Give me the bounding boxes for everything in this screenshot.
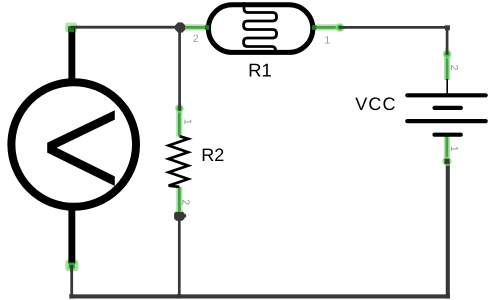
junction: bottom bus at R2 branch	[177, 294, 181, 299]
wire: battery pin 1 green wire (bottom)	[444, 135, 450, 162]
terminal: R1 pin 1 dark-green pad at stadium edge	[312, 25, 316, 30]
resistor R1: stadium body	[208, 5, 312, 53]
wire: bottom horizontal bus	[70, 294, 450, 298]
wire: R1 pin 1 green wire (stadium to net dot)	[312, 24, 339, 30]
svg-text:R1: R1	[248, 60, 272, 81]
terminal: source top pin green halo	[65, 23, 77, 33]
battery VCC: long plate 1	[407, 93, 485, 97]
wire: vertical from junction A down to R2 pin 1	[178, 27, 181, 108]
battery VCC: short plate 1	[435, 106, 461, 110]
terminal: R1 pin 2 dark-green pad at stadium edge	[205, 25, 209, 30]
junction: bottom-left corner	[69, 294, 73, 299]
battery VCC: short plate 2	[435, 133, 461, 137]
svg-text:R2: R2	[201, 145, 224, 165]
svg-text:1: 1	[324, 34, 330, 46]
wire: R2 pin 2 green wire	[176, 187, 182, 212]
svg-text:2: 2	[193, 33, 199, 45]
terminal: green dot at battery pin 2	[443, 48, 452, 58]
wire: top-left horizontal from source top terminal to junction A	[72, 26, 181, 29]
terminal: green dot end of R1 pin 1 wire	[336, 23, 346, 32]
voltage source U1: top lead	[68, 27, 75, 81]
voltage source U1: bottom lead	[68, 208, 75, 264]
junction: top-right corner square	[445, 25, 450, 30]
wire: battery pin 2 green wire (top)	[444, 55, 450, 80]
node B: junction dot below R2 pin 2	[174, 211, 184, 221]
wire: R1 pin 2 green wire (junction A to stadium)	[186, 24, 209, 30]
svg-text:VCC: VCC	[355, 94, 396, 114]
svg-text:2: 2	[180, 199, 191, 205]
junction: bottom-right corner	[446, 294, 450, 299]
wire: vertical from top-right corner down to battery pin 2	[446, 26, 449, 53]
terminal: battery pin 1 bottom pad	[442, 157, 451, 166]
resistor R2: zigzag	[169, 136, 189, 187]
terminal: source bottom pin green core	[69, 263, 75, 272]
wire: left vertical from source bottom terminal down to bottom bus	[70, 264, 73, 297]
resistor R1: internal meander element	[244, 2, 277, 54]
terminal: source bottom pin green halo	[65, 260, 78, 271]
terminal: green dot at R2 pin 1 top	[175, 103, 184, 113]
voltage source U1: circle	[11, 82, 136, 207]
wire: right vertical from bottom bus up to battery pin 1	[446, 161, 450, 297]
battery VCC: long plate 2	[407, 119, 485, 123]
battery VCC: top lead	[446, 79, 448, 95]
voltage source U1: chevron <	[47, 110, 115, 186]
svg-text:1: 1	[448, 146, 459, 152]
node A: junction dot top (net joining source, R1, R2)	[175, 22, 185, 32]
svg-text:1: 1	[181, 119, 192, 125]
wire: R2 pin 1 green wire	[176, 110, 182, 137]
wire: top-right horizontal from R1 pin 1 to corner	[341, 26, 449, 29]
svg-text:2: 2	[448, 65, 459, 71]
terminal: source top pin dark-green core	[68, 26, 78, 32]
wire: vertical from R2 pin 2 junction down to bottom bus	[178, 216, 181, 297]
